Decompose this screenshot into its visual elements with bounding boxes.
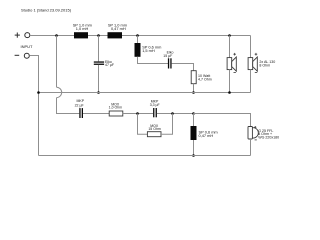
wire: lower section feed to rail (57, 98, 80, 114)
node: junction between L1 and L2 (Elko tap) (97, 34, 100, 37)
minus mark tweeter (255, 139, 257, 141)
wire: rail to tweeter and drop (194, 114, 251, 127)
svg-text:15 µF: 15 µF (163, 54, 172, 58)
wire: MOX to 3,3uF (123, 113, 153, 115)
node: notch branch on minus rail (192, 91, 195, 94)
wire: Elko 47uF branch lower (98, 65, 100, 93)
plus mark woofer 2 (255, 53, 258, 56)
wire: 1,5 mH branch from plus rail (137, 36, 139, 44)
inductor L2 SP 1,0 mm 0,47 mH (108, 32, 123, 38)
wire: woofer 1 bottom lead (229, 70, 231, 93)
speaker woofer 2 AL 130 (248, 57, 257, 71)
node: shunt inductor on bottom rail (192, 154, 195, 157)
wire: bottom return rail (39, 155, 251, 157)
inductor SP 0,6 mm 1,5 mH (135, 43, 141, 57)
wire: minus rail (39, 92, 251, 94)
minus input terminal (15, 53, 30, 58)
node: woofer 1 on minus rail (228, 91, 231, 94)
svg-text:3,3 µF: 3,3 µF (150, 103, 160, 107)
svg-text:22 µF: 22 µF (75, 103, 84, 107)
node: Elko branch on minus rail (97, 91, 100, 94)
speaker woofer 1 AL 130 (227, 57, 236, 71)
svg-text:0,47 mH: 0,47 mH (199, 133, 214, 138)
minus mark woofer 1 (234, 72, 236, 74)
wire: woofer 1 top lead (229, 36, 231, 58)
wire: from 1,5 mH down and right to 15 uF (138, 57, 169, 64)
node: junction on plus rail to lower section (55, 34, 58, 37)
plus mark tweeter (254, 126, 256, 128)
wire: 3,3uF to right (157, 113, 194, 115)
wire: top plus rail (30, 35, 251, 37)
svg-text:1,5 mH: 1,5 mH (142, 48, 155, 53)
capacitor Elko 15 uF (168, 58, 169, 68)
wire: 22uF to MOX resistor (83, 113, 109, 115)
node: junction on plus rail to 1,5 mH branch (136, 34, 139, 37)
capacitor MKP 22 uF (79, 108, 80, 118)
node: junction on plus rail to woofer 1 (228, 34, 231, 37)
inductor L1 SP 1,0 mm 1,0 mH (74, 32, 88, 38)
svg-text:INPUT: INPUT (21, 44, 34, 49)
wire: minus lead down to bottom-left (29, 56, 38, 156)
wire: lower section feed upper (56, 36, 58, 88)
inductor SP 0,6 mm 0,47 mH (191, 126, 197, 140)
svg-text:Studio 1 (Stand 23.09.2015): Studio 1 (Stand 23.09.2015) (21, 8, 72, 13)
capacitor MKP 3,3 uF (153, 108, 154, 117)
wire: resistor to minus rail (193, 84, 195, 93)
node: junction rail to 0,47 mH shunt (192, 112, 195, 115)
node: RC branch left (136, 112, 139, 115)
resistor MOX 1,0 Ohm (109, 111, 123, 116)
wire: from 15 uF right and down to resistor (172, 64, 194, 71)
svg-text:WG 220x180: WG 220x180 (258, 135, 279, 139)
svg-text:0,47 mH: 0,47 mH (111, 26, 126, 31)
svg-text:1,0 mH: 1,0 mH (76, 26, 89, 31)
wire: RC lower branch right rise (161, 114, 173, 135)
speaker tweeter G 25 FFL (248, 127, 258, 140)
wire: RC lower branch left drop (138, 114, 148, 135)
svg-text:1,0 Ohm: 1,0 Ohm (109, 106, 123, 110)
wire: shunt inductor bottom lead (193, 140, 195, 156)
svg-text:47 µF: 47 µF (105, 63, 114, 67)
wire: woofer 2 top lead (250, 36, 252, 58)
wire: shunt inductor top lead (193, 114, 195, 127)
plus mark woofer 1 (233, 53, 236, 56)
wire: Elko 47uF branch upper (98, 36, 100, 62)
wire hop over minus rail (57, 87, 62, 97)
wire: tweeter bottom lead (250, 139, 252, 156)
node: minus lead junction on minus rail (37, 91, 40, 94)
node: RC branch right (171, 112, 174, 115)
svg-text:8 Ohm: 8 Ohm (259, 63, 270, 67)
plus input terminal (15, 33, 30, 38)
resistor 10 Watt 4,7 Ohm (191, 71, 196, 84)
minus mark woofer 2 (255, 72, 257, 74)
svg-text:4,7 Ohm: 4,7 Ohm (198, 78, 212, 82)
svg-text:15 Ohm: 15 Ohm (148, 127, 161, 131)
wire: woofer 2 bottom lead (250, 70, 252, 93)
resistor MOX 15 Ohm (147, 132, 161, 137)
capacitor Elko 47 uF (94, 61, 104, 62)
